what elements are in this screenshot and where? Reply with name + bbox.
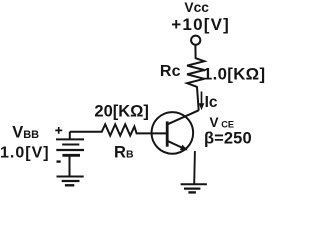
svg-text:1.0[V]: 1.0[V] (0, 145, 50, 162)
svg-text:B: B (126, 149, 134, 161)
svg-text:R: R (114, 143, 126, 161)
svg-text:BB: BB (23, 129, 39, 141)
svg-text:1.0[KΩ]: 1.0[KΩ] (203, 64, 266, 83)
svg-text:+10[V]: +10[V] (171, 15, 230, 34)
svg-text:20[KΩ]: 20[KΩ] (94, 103, 148, 121)
svg-text:V: V (12, 124, 23, 142)
svg-text:V: V (210, 115, 219, 130)
svg-text:Vcc: Vcc (184, 0, 209, 15)
svg-text:β=250: β=250 (204, 130, 252, 148)
svg-text:CE: CE (221, 119, 234, 129)
svg-text:Rc: Rc (160, 63, 181, 80)
svg-text:Ic: Ic (205, 94, 218, 111)
